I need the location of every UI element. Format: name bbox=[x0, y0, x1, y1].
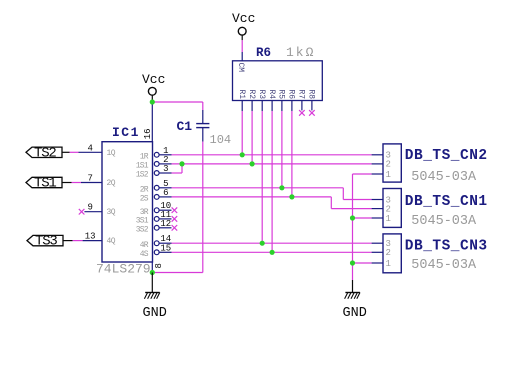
svg-text:3Q: 3Q bbox=[107, 208, 116, 217]
svg-text:CM: CM bbox=[236, 63, 245, 73]
wire net pin15 / R4 / CN3.2 bbox=[172, 251, 372, 253]
svg-text:3R: 3R bbox=[140, 208, 149, 217]
svg-text:TS3: TS3 bbox=[35, 234, 57, 250]
resistor network R6 bbox=[233, 45, 323, 101]
IC U1 74LS279 box bbox=[96, 125, 153, 277]
svg-text:R7: R7 bbox=[297, 90, 306, 100]
wire Vcc to pin16 bbox=[151, 95, 153, 141]
no-connect X on R8 bbox=[309, 110, 315, 116]
connector CN1 bbox=[372, 189, 488, 229]
svg-text:DB_TS_CN2: DB_TS_CN2 bbox=[405, 148, 488, 164]
wire R5 column bbox=[281, 111, 283, 188]
wire TS3 to pin13 bbox=[63, 240, 83, 242]
svg-text:5045-03A: 5045-03A bbox=[411, 258, 477, 273]
svg-text:2: 2 bbox=[385, 160, 390, 170]
svg-text:Vcc: Vcc bbox=[232, 11, 255, 26]
no-connect X pin11 bbox=[172, 216, 178, 222]
wire net pin14 / R3 / CN3.3 bbox=[172, 242, 372, 244]
wire GND to CN1.1 bbox=[353, 217, 372, 219]
signal flag TS1 bbox=[26, 176, 62, 192]
svg-text:8: 8 bbox=[154, 263, 164, 268]
svg-text:4: 4 bbox=[87, 143, 92, 153]
svg-text:6: 6 bbox=[163, 188, 168, 198]
svg-text:9: 9 bbox=[87, 203, 92, 213]
wire net pin2 / R2 / CN2.2 bbox=[172, 163, 372, 165]
svg-text:R8: R8 bbox=[307, 90, 316, 100]
wire R3 column bbox=[261, 111, 263, 243]
wire GND to CN3.1 bbox=[353, 262, 372, 264]
wire GND to CN2.1 bbox=[353, 173, 372, 175]
svg-text:IC1: IC1 bbox=[112, 125, 140, 140]
no-connect X pin12 bbox=[172, 225, 178, 231]
svg-text:C1: C1 bbox=[177, 119, 193, 134]
node IC GND junction bbox=[150, 270, 155, 275]
svg-text:16: 16 bbox=[143, 128, 153, 139]
svg-text:4Q: 4Q bbox=[107, 237, 116, 246]
svg-text:2: 2 bbox=[385, 248, 390, 258]
wire C1 bottom to GND net bbox=[152, 142, 203, 273]
node R2 junction bbox=[250, 161, 255, 166]
wire pin3 riser to pin2 net bbox=[172, 164, 183, 173]
IC left pin names bbox=[107, 149, 116, 246]
svg-text:DB_TS_CN1: DB_TS_CN1 bbox=[405, 194, 488, 210]
wire Vcc to C1 top bbox=[152, 102, 203, 110]
pin 9 stub with no-connect X bbox=[79, 203, 102, 215]
connector CN2 bbox=[372, 144, 488, 185]
wire R6 column bbox=[291, 111, 293, 197]
power Vcc top (R6 supply) bbox=[232, 11, 255, 35]
node R4 junction bbox=[270, 250, 275, 255]
svg-text:R4: R4 bbox=[267, 90, 276, 100]
svg-text:R3: R3 bbox=[257, 90, 266, 100]
svg-text:TS1: TS1 bbox=[34, 176, 56, 192]
pin 4 stub bbox=[79, 143, 103, 153]
svg-text:1: 1 bbox=[385, 214, 390, 224]
svg-text:2R: 2R bbox=[140, 185, 149, 194]
wire TS2 to pin4 bbox=[62, 151, 79, 153]
wire R2 column bbox=[251, 111, 253, 164]
svg-text:1S1: 1S1 bbox=[136, 162, 149, 171]
IC right pin names bbox=[136, 152, 149, 259]
svg-text:3S1: 3S1 bbox=[136, 217, 149, 226]
R6 pin leads R1-R8 bbox=[242, 101, 312, 112]
wire net pin6 / R6 / CN1.2 bbox=[172, 197, 372, 209]
capacitor C1 bbox=[177, 110, 232, 147]
power Vcc left (IC1 supply) bbox=[142, 72, 165, 95]
svg-text:4R: 4R bbox=[140, 241, 149, 250]
svg-text:4S: 4S bbox=[140, 250, 149, 259]
svg-text:R6: R6 bbox=[256, 46, 271, 60]
svg-text:R6: R6 bbox=[287, 90, 296, 100]
node R3 junction bbox=[260, 241, 265, 246]
svg-text:R2: R2 bbox=[247, 90, 256, 100]
svg-text:104: 104 bbox=[210, 133, 232, 147]
ground GND right bbox=[343, 293, 367, 321]
svg-text:R5: R5 bbox=[277, 90, 286, 100]
node R6 junction bbox=[289, 194, 294, 199]
svg-text:1Q: 1Q bbox=[107, 149, 116, 158]
svg-text:5045-03A: 5045-03A bbox=[411, 170, 477, 185]
svg-text:Vcc: Vcc bbox=[142, 72, 165, 87]
svg-text:5045-03A: 5045-03A bbox=[411, 214, 477, 229]
svg-text:1kΩ: 1kΩ bbox=[286, 45, 315, 60]
node R1 junction bbox=[240, 152, 245, 157]
svg-text:1: 1 bbox=[385, 259, 390, 269]
wire R4 column bbox=[271, 111, 273, 252]
wire GND bus vertical right bbox=[352, 174, 354, 292]
wire R1 column bbox=[241, 111, 243, 155]
pin 7 stub bbox=[81, 174, 102, 184]
svg-text:15: 15 bbox=[160, 243, 171, 253]
wire TS1 to pin7 bbox=[62, 182, 81, 184]
svg-text:1S2: 1S2 bbox=[136, 171, 149, 180]
svg-text:1: 1 bbox=[385, 170, 390, 180]
wire to ground bbox=[151, 273, 153, 293]
no-connect X pin10 bbox=[172, 207, 178, 213]
svg-text:TS2: TS2 bbox=[34, 145, 56, 161]
node CN1.1 junction bbox=[350, 215, 355, 220]
svg-text:GND: GND bbox=[143, 306, 167, 321]
connector CN3 bbox=[372, 234, 488, 273]
wire net pin5 / R5 / CN1.3 bbox=[172, 188, 372, 200]
svg-text:7: 7 bbox=[87, 174, 92, 184]
svg-text:2S: 2S bbox=[140, 195, 149, 204]
signal flag TS2 bbox=[26, 145, 62, 161]
signal flag TS3 bbox=[27, 234, 63, 250]
wire Vcc to R6 CM bbox=[241, 35, 243, 61]
node CN3.1 junction bbox=[350, 260, 355, 265]
svg-text:R1: R1 bbox=[237, 90, 246, 100]
svg-text:3: 3 bbox=[163, 164, 168, 174]
node R5 junction bbox=[279, 185, 284, 190]
svg-text:13: 13 bbox=[85, 232, 96, 242]
svg-text:GND: GND bbox=[343, 306, 367, 321]
svg-text:3S2: 3S2 bbox=[136, 225, 149, 234]
pin 13 stub bbox=[83, 232, 102, 242]
ground GND left bbox=[143, 293, 167, 321]
IC right pins: bubbles and stubs bbox=[154, 146, 171, 255]
node Vcc junction bbox=[150, 99, 155, 104]
svg-text:74LS279: 74LS279 bbox=[96, 262, 151, 277]
svg-text:12: 12 bbox=[160, 219, 171, 229]
node pin2/pin3 junction bbox=[179, 161, 184, 166]
svg-text:1R: 1R bbox=[140, 152, 149, 161]
svg-text:2Q: 2Q bbox=[107, 179, 116, 188]
svg-text:DB_TS_CN3: DB_TS_CN3 bbox=[405, 238, 488, 254]
pin 8 lead bbox=[151, 262, 153, 273]
wire net pin1 / R1 / CN2.3 bbox=[172, 154, 372, 156]
no-connect X on R7 bbox=[299, 110, 305, 116]
